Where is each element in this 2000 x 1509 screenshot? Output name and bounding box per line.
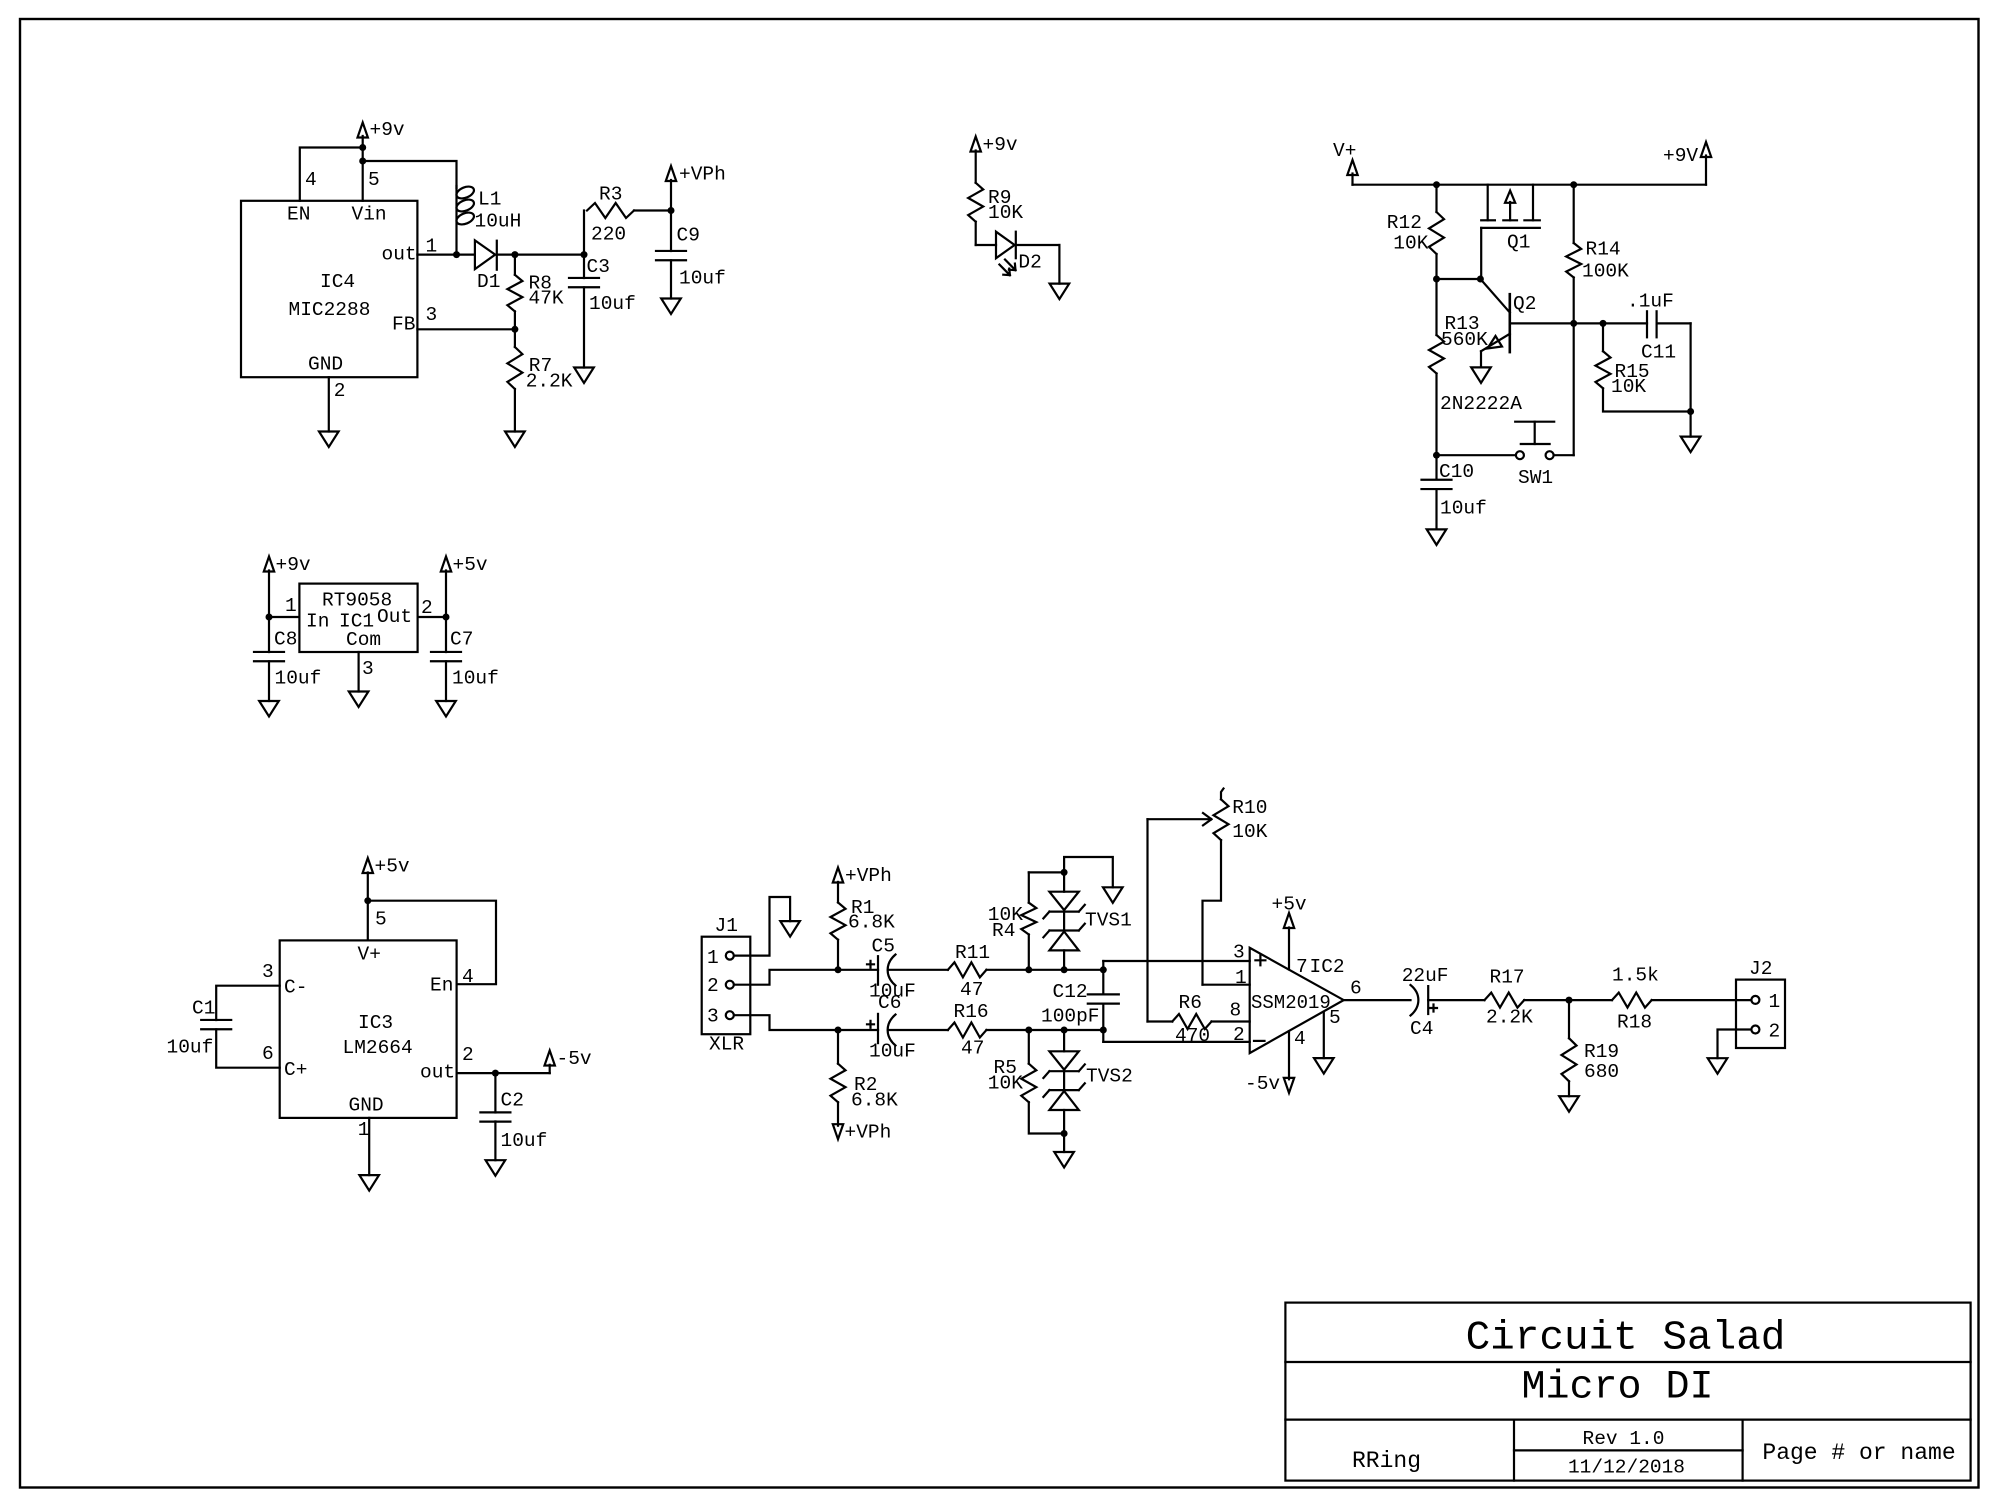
- svg-text:C6: C6: [878, 992, 901, 1014]
- svg-text:10uf: 10uf: [589, 293, 636, 315]
- svg-text:2N2222A: 2N2222A: [1440, 393, 1522, 415]
- svg-text:10uf: 10uf: [452, 668, 499, 690]
- svg-text:22uF: 22uF: [1402, 965, 1449, 987]
- svg-text:C2: C2: [501, 1090, 524, 1112]
- svg-text:out: out: [420, 1062, 455, 1084]
- svg-text:+5v: +5v: [375, 856, 410, 878]
- svg-text:out: out: [382, 244, 417, 266]
- svg-text:C5: C5: [872, 936, 895, 958]
- svg-text:+9V: +9V: [1663, 145, 1698, 167]
- svg-text:6: 6: [262, 1043, 274, 1065]
- svg-text:2: 2: [334, 380, 346, 402]
- svg-text:+9v: +9v: [370, 119, 405, 141]
- svg-text:100K: 100K: [1582, 261, 1629, 283]
- svg-text:GND: GND: [349, 1095, 384, 1117]
- svg-text:10uf: 10uf: [167, 1037, 214, 1059]
- svg-text:R6: R6: [1179, 992, 1202, 1014]
- svg-text:10K: 10K: [988, 1073, 1023, 1095]
- svg-text:1: 1: [285, 595, 297, 617]
- svg-text:10uF: 10uF: [869, 1041, 916, 1063]
- svg-text:IC3: IC3: [358, 1012, 393, 1034]
- svg-text:2: 2: [707, 975, 719, 997]
- svg-text:Q2: Q2: [1513, 293, 1536, 315]
- svg-text:TVS1: TVS1: [1085, 910, 1132, 932]
- svg-text:10K: 10K: [1611, 376, 1646, 398]
- svg-text:C4: C4: [1410, 1018, 1433, 1040]
- svg-text:D2: D2: [1018, 252, 1041, 274]
- svg-text:J2: J2: [1749, 958, 1772, 980]
- svg-text:3: 3: [1233, 942, 1245, 964]
- svg-text:6.8K: 6.8K: [848, 912, 895, 934]
- svg-text:3: 3: [426, 304, 438, 326]
- svg-text:GND: GND: [308, 354, 343, 376]
- svg-text:4: 4: [1294, 1028, 1306, 1050]
- svg-text:C7: C7: [450, 629, 473, 651]
- svg-text:LM2664: LM2664: [343, 1037, 413, 1059]
- svg-text:Out: Out: [377, 606, 412, 628]
- svg-text:1: 1: [1769, 991, 1781, 1013]
- svg-text:7: 7: [1296, 956, 1308, 978]
- svg-text:8: 8: [1230, 1000, 1242, 1022]
- svg-text:En: En: [430, 975, 453, 997]
- svg-text:47: 47: [961, 1038, 984, 1060]
- svg-text:560K: 560K: [1441, 329, 1488, 351]
- svg-text:Circuit Salad: Circuit Salad: [1466, 1316, 1786, 1362]
- svg-text:C12: C12: [1053, 981, 1088, 1003]
- svg-text:C1: C1: [192, 998, 215, 1020]
- svg-text:5: 5: [368, 169, 380, 191]
- svg-text:Q1: Q1: [1507, 232, 1530, 254]
- svg-text:C11: C11: [1641, 342, 1676, 364]
- svg-text:2: 2: [421, 597, 433, 619]
- svg-text:+VPh: +VPh: [845, 1122, 892, 1144]
- svg-text:EN: EN: [287, 204, 310, 226]
- svg-text:6: 6: [1350, 978, 1362, 1000]
- svg-text:C8: C8: [274, 629, 297, 651]
- svg-text:100pF: 100pF: [1041, 1006, 1100, 1028]
- svg-text:R17: R17: [1490, 967, 1525, 989]
- svg-text:C+: C+: [284, 1059, 307, 1081]
- svg-text:+9v: +9v: [983, 134, 1018, 156]
- svg-text:RRing: RRing: [1352, 1448, 1421, 1474]
- svg-text:10K: 10K: [1393, 232, 1428, 254]
- svg-text:IC2: IC2: [1310, 956, 1345, 978]
- svg-text:IC4: IC4: [320, 271, 355, 293]
- svg-text:R11: R11: [955, 942, 990, 964]
- svg-text:R10: R10: [1232, 797, 1267, 819]
- svg-text:10uH: 10uH: [475, 211, 522, 233]
- svg-text:V+: V+: [358, 944, 381, 966]
- svg-text:C-: C-: [284, 977, 307, 999]
- svg-text:1: 1: [1235, 967, 1247, 989]
- svg-text:.1uF: .1uF: [1627, 291, 1674, 313]
- svg-text:1: 1: [358, 1119, 370, 1141]
- svg-text:3: 3: [362, 658, 374, 680]
- svg-text:47K: 47K: [529, 288, 564, 310]
- svg-text:5: 5: [375, 909, 387, 931]
- svg-text:Rev 1.0: Rev 1.0: [1583, 1428, 1665, 1450]
- svg-text:Micro DI: Micro DI: [1521, 1365, 1713, 1410]
- svg-text:R14: R14: [1586, 239, 1621, 261]
- svg-text:Com: Com: [346, 629, 381, 651]
- svg-text:2: 2: [462, 1044, 474, 1066]
- svg-text:C10: C10: [1439, 461, 1474, 483]
- svg-text:220: 220: [591, 224, 626, 246]
- svg-text:-5v: -5v: [1245, 1073, 1280, 1095]
- svg-text:-5v: -5v: [557, 1048, 592, 1070]
- svg-text:2: 2: [1233, 1024, 1245, 1046]
- svg-text:R18: R18: [1617, 1012, 1652, 1034]
- svg-text:FB: FB: [392, 314, 415, 336]
- svg-text:470: 470: [1175, 1025, 1210, 1047]
- svg-text:10uf: 10uf: [679, 268, 726, 290]
- svg-text:6.8K: 6.8K: [851, 1090, 898, 1112]
- svg-text:+VPh: +VPh: [679, 164, 726, 186]
- svg-text:R3: R3: [599, 184, 622, 206]
- svg-text:R19: R19: [1584, 1041, 1619, 1063]
- svg-text:R12: R12: [1387, 212, 1422, 234]
- svg-text:MIC2288: MIC2288: [289, 299, 371, 321]
- svg-text:2.2K: 2.2K: [1486, 1007, 1533, 1029]
- svg-text:10K: 10K: [1232, 821, 1267, 843]
- svg-text:XLR: XLR: [709, 1034, 744, 1056]
- svg-text:5: 5: [1329, 1007, 1341, 1029]
- svg-text:TVS2: TVS2: [1086, 1066, 1133, 1088]
- svg-text:SW1: SW1: [1518, 467, 1553, 489]
- svg-text:SSM2019: SSM2019: [1251, 992, 1331, 1014]
- svg-text:3: 3: [707, 1006, 719, 1028]
- svg-text:D1: D1: [477, 271, 500, 293]
- svg-text:10uf: 10uf: [501, 1130, 548, 1152]
- svg-text:1.5k: 1.5k: [1612, 965, 1659, 987]
- svg-text:Page # or name: Page # or name: [1762, 1440, 1955, 1466]
- svg-text:+5v: +5v: [1272, 894, 1307, 916]
- svg-text:Vin: Vin: [352, 204, 387, 226]
- svg-text:4: 4: [305, 169, 317, 191]
- svg-text:J1: J1: [715, 915, 738, 937]
- svg-text:C3: C3: [587, 256, 610, 278]
- svg-text:2.2K: 2.2K: [526, 370, 573, 392]
- svg-text:11/12/2018: 11/12/2018: [1568, 1457, 1685, 1479]
- svg-text:10uf: 10uf: [1440, 498, 1487, 520]
- svg-text:47: 47: [960, 979, 983, 1001]
- svg-text:2: 2: [1769, 1021, 1781, 1043]
- svg-text:L1: L1: [478, 189, 501, 211]
- svg-text:In: In: [306, 611, 329, 633]
- svg-text:3: 3: [262, 961, 274, 983]
- svg-text:680: 680: [1584, 1061, 1619, 1083]
- svg-text:R16: R16: [954, 1001, 989, 1023]
- svg-text:+5v: +5v: [453, 554, 488, 576]
- svg-text:C9: C9: [677, 225, 700, 247]
- svg-text:+VPh: +VPh: [845, 865, 892, 887]
- svg-text:R4: R4: [992, 920, 1015, 942]
- svg-text:10K: 10K: [988, 202, 1023, 224]
- svg-text:+9v: +9v: [276, 554, 311, 576]
- svg-text:1: 1: [707, 947, 719, 969]
- svg-text:10uf: 10uf: [275, 668, 322, 690]
